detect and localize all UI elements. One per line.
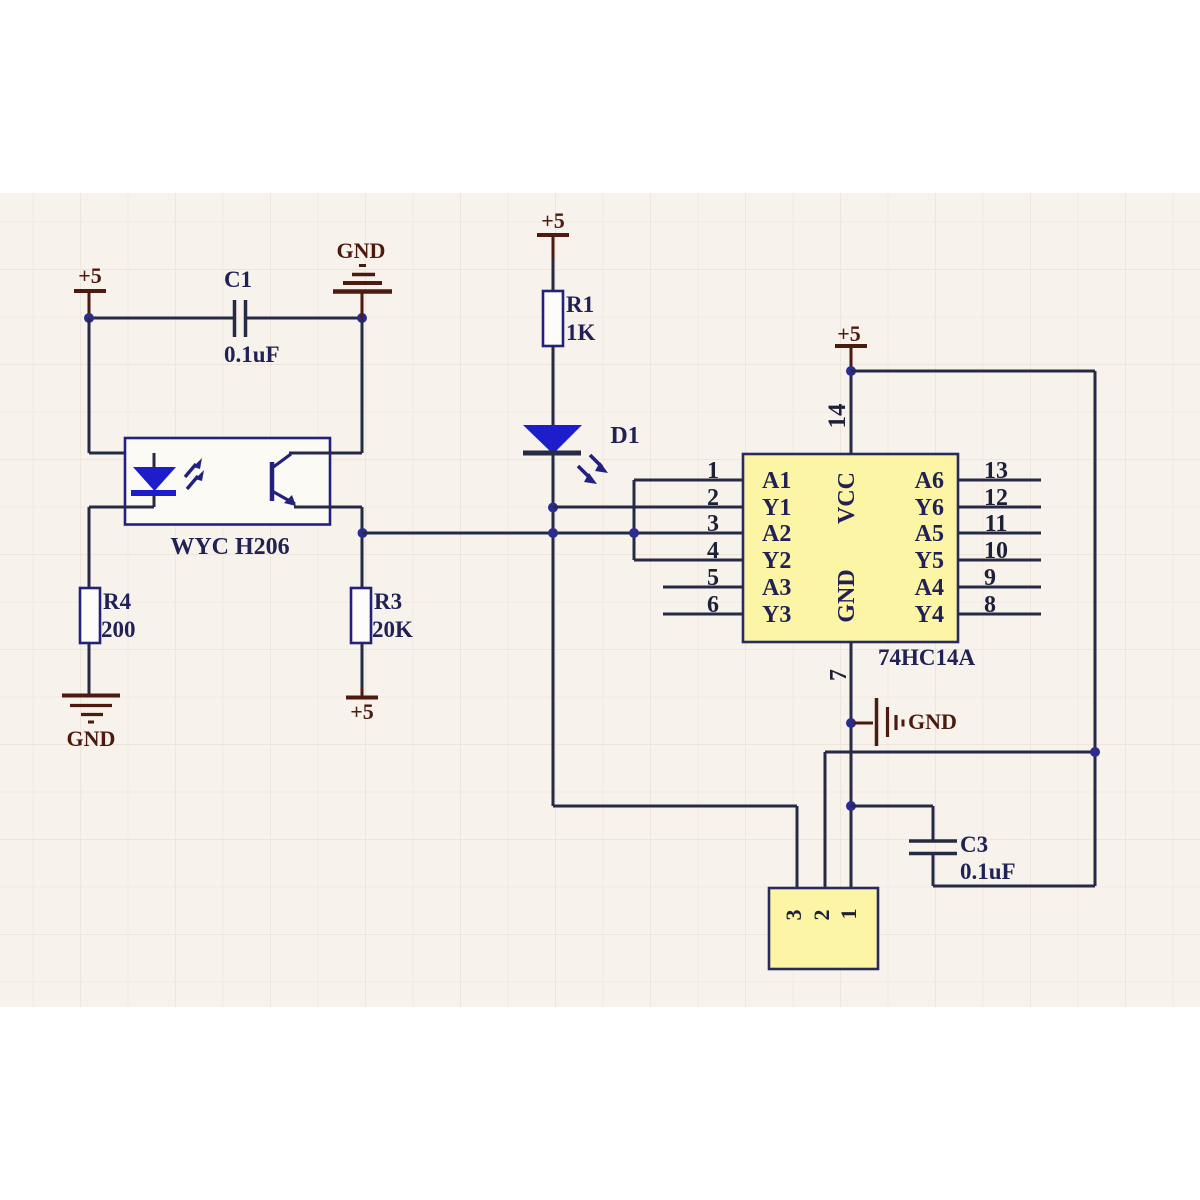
wire IC pin11 stub (958, 532, 1041, 535)
wire into optocoupler anode (89, 452, 154, 455)
svg-text:10: 10 (984, 538, 1008, 564)
wire IC pin6 stub (663, 613, 743, 616)
opto LED cathode stem (153, 495, 156, 507)
wire opto collector out to right (289, 452, 362, 455)
wire right-edge vertical (1094, 371, 1097, 886)
junction at +5 top-left rail (84, 313, 94, 323)
svg-text:200: 200 (101, 617, 136, 642)
wire opto cathode out to left (89, 506, 154, 509)
svg-text:A5: A5 (915, 521, 944, 547)
svg-text:R4: R4 (103, 589, 132, 614)
ground GND (near pin 7, sideways) (854, 722, 873, 725)
svg-text:1K: 1K (566, 320, 596, 345)
svg-text:2: 2 (809, 910, 834, 921)
wire C3 bottom to right edge (932, 854, 935, 886)
junction at +5 IC rail (846, 366, 856, 376)
svg-text:5: 5 (707, 565, 719, 591)
svg-text:C3: C3 (960, 832, 988, 857)
svg-text:Y1: Y1 (762, 495, 791, 521)
wire right vertical (GND rail down to opto collector) (361, 318, 364, 453)
wire +5 down to R1 (552, 260, 555, 291)
wire IC pin4 (634, 559, 743, 562)
svg-text:A4: A4 (915, 575, 944, 601)
capacitor C1 (233, 300, 237, 337)
svg-text:3: 3 (707, 511, 719, 537)
wire left vertical (+5 rail down to optocoupler pin1) (88, 318, 91, 453)
connector P1 (769, 888, 878, 969)
wire net A2 (opto emitter to IC pin3) (362, 532, 743, 535)
svg-text:Y3: Y3 (762, 602, 791, 628)
wire R4 to ground (88, 643, 91, 694)
wire top rail left (+5 to C1) (89, 317, 233, 320)
wire vertical joining pins 1 and 4 (633, 480, 636, 560)
wire top rail right (C1 to GND) (247, 317, 362, 320)
capacitor C3 (909, 839, 957, 843)
svg-text:D1: D1 (610, 423, 639, 449)
resistor R4 (80, 588, 100, 643)
svg-text:A6: A6 (915, 468, 944, 494)
wire VCC net to connector pin2 (825, 751, 1095, 754)
svg-text:GND: GND (908, 709, 957, 734)
wire R1 down to D1 (552, 346, 555, 426)
power +5 (below R3) (361, 687, 364, 696)
svg-text:GND: GND (337, 238, 386, 263)
svg-text:A3: A3 (762, 575, 791, 601)
junction at A2 net / emitter (358, 528, 368, 538)
wire to C3 top (851, 805, 933, 808)
svg-text:Y5: Y5 (915, 548, 944, 574)
svg-text:6: 6 (707, 592, 719, 618)
svg-text:+5: +5 (350, 699, 374, 724)
svg-text:7: 7 (826, 669, 852, 681)
wire D1 net down to connector pin3 (553, 805, 797, 808)
wire IC pin12 stub (958, 506, 1041, 509)
wire IC pin7 down to connector pin1 (850, 642, 853, 887)
svg-text:1: 1 (836, 909, 861, 920)
wire left down to R4 (88, 507, 91, 588)
svg-text:4: 4 (707, 538, 719, 564)
svg-text:GND: GND (67, 726, 116, 751)
svg-text:1: 1 (707, 458, 719, 484)
opto LED anode stem (153, 453, 156, 468)
svg-text:C1: C1 (224, 267, 252, 292)
junction pins1-4 vertical at A2 wire (629, 528, 639, 538)
junction D1 net at pin2 wire (548, 503, 558, 513)
svg-text:74HC14A: 74HC14A (878, 645, 976, 670)
wire IC pin14 (850, 371, 853, 454)
svg-text:A1: A1 (762, 468, 791, 494)
wire VCC rail to right edge (851, 370, 1095, 373)
opto light arrows (185, 464, 196, 477)
ground GND (bottom left) (62, 694, 120, 698)
LED D1 (523, 425, 582, 454)
svg-text:GND: GND (834, 569, 860, 622)
svg-text:0.1uF: 0.1uF (960, 859, 1016, 884)
wire IC pin10 stub (958, 559, 1041, 562)
svg-text:13: 13 (984, 458, 1008, 484)
wire IC pin13 stub (958, 479, 1041, 482)
IC U1 74HC14A body (743, 454, 958, 642)
wire IC pin9 stub (958, 586, 1041, 589)
resistor R1 (543, 291, 563, 346)
junction right edge at pin2 rail (1090, 747, 1100, 757)
svg-text:14: 14 (824, 403, 851, 429)
svg-text:A2: A2 (762, 521, 791, 547)
wire IC pin8 stub (958, 613, 1041, 616)
svg-text:WYC H206: WYC H206 (170, 534, 289, 560)
svg-text:12: 12 (984, 485, 1008, 511)
opto LED (133, 467, 176, 491)
optocoupler U2 WYC H206 body (125, 438, 330, 525)
svg-text:Y6: Y6 (915, 495, 944, 521)
svg-text:8: 8 (984, 592, 996, 618)
wire emitter down to R3 (361, 507, 364, 588)
wire IC pin1 (634, 479, 743, 482)
svg-text:R1: R1 (566, 292, 594, 317)
svg-text:20K: 20K (372, 617, 413, 642)
svg-text:3: 3 (781, 910, 806, 921)
svg-text:0.1uF: 0.1uF (224, 342, 280, 367)
junction D1 net at A2 wire (548, 528, 558, 538)
junction at GND top rail (357, 313, 367, 323)
svg-text:+5: +5 (837, 321, 861, 346)
resistor R3 (351, 588, 371, 643)
wire opto emitter out (294, 506, 362, 509)
svg-text:Y2: Y2 (762, 548, 791, 574)
opto phototransistor (270, 462, 275, 501)
wire IC pin5 stub (663, 586, 743, 589)
wire R3 down to +5 (361, 643, 364, 689)
LED D1 light arrows (590, 455, 602, 467)
svg-text:2: 2 (707, 485, 719, 511)
svg-text:+5: +5 (78, 263, 102, 288)
wire IC pin2 (to D1 net) (553, 506, 743, 509)
svg-text:VCC: VCC (834, 472, 860, 524)
svg-text:+5: +5 (541, 208, 565, 233)
svg-text:R3: R3 (374, 589, 402, 614)
junction pin7 at GND symbol (846, 718, 856, 728)
power +5 (top left) (88, 293, 91, 318)
svg-text:Y4: Y4 (915, 602, 944, 628)
junction pin7 net at C3 branch (846, 801, 856, 811)
wire D1 cathode down (552, 455, 555, 806)
svg-text:11: 11 (985, 511, 1008, 537)
svg-text:9: 9 (984, 565, 996, 591)
